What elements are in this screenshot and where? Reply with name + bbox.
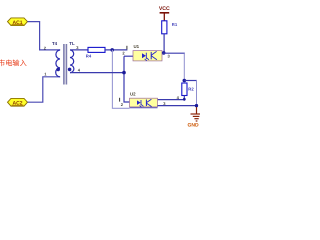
wire transformer pin4 to node B	[70, 72, 124, 74]
wire AC1 to transformer pin2	[28, 22, 61, 50]
resistor R4	[88, 47, 105, 52]
wire R1 down to U1 pin4	[163, 34, 165, 53]
opto U2	[130, 98, 158, 107]
VCC symbol	[159, 6, 170, 21]
junction dot overlay	[195, 104, 198, 107]
port AC1	[8, 18, 28, 26]
port AC2	[8, 98, 28, 106]
svg-text:R4: R4	[86, 54, 92, 59]
node B junction dot	[122, 71, 126, 75]
junction dot at U1 pin4	[162, 51, 166, 55]
transformer polarity dot secondary	[68, 68, 72, 72]
svg-text:R2: R2	[188, 86, 194, 91]
U2 pin1 number	[119, 98, 121, 102]
transformer secondary winding	[70, 50, 74, 73]
wire node A down to U2 pin2	[112, 50, 129, 108]
transformer core	[63, 44, 65, 85]
svg-text:R1: R1	[172, 22, 178, 27]
resistor R2	[182, 83, 187, 96]
wire node B to U1 pin2	[124, 55, 133, 57]
svg-text:T4: T4	[52, 41, 58, 46]
svg-text:GND: GND	[188, 122, 200, 128]
svg-text:VCC: VCC	[159, 6, 170, 12]
junction dot above R2	[183, 79, 187, 83]
right rail vertical	[196, 80, 198, 106]
wire U2 pin3 to right rail	[158, 105, 197, 107]
corner dot at R2 bottom	[183, 98, 186, 101]
node A junction dot	[110, 48, 114, 52]
wire U1 output right and down	[162, 52, 185, 54]
opto U1	[133, 51, 162, 61]
wire under U2 box	[130, 107, 158, 109]
wire transformer pin3 to R4	[70, 49, 88, 51]
resistor R1	[162, 21, 167, 34]
svg-text:U1: U1	[134, 44, 140, 49]
svg-text:U2: U2	[130, 91, 136, 96]
wire down to R2 node	[183, 53, 185, 80]
wire R2 bottom to U2 pin4	[158, 96, 185, 100]
U1 pin 1 number	[126, 46, 128, 50]
wire junction to right rail down	[184, 80, 197, 82]
wire R4 to U1 pin1	[105, 49, 127, 51]
node B vertical wire	[124, 56, 130, 102]
svg-text:市电输入: 市电输入	[0, 58, 27, 67]
ground	[191, 106, 201, 121]
transformer polarity dot primary	[56, 68, 60, 72]
wire AC2 to transformer pin1	[28, 77, 61, 102]
junction dot right rail	[195, 104, 198, 107]
transformer primary winding	[56, 50, 60, 77]
svg-text:TL: TL	[69, 41, 75, 46]
